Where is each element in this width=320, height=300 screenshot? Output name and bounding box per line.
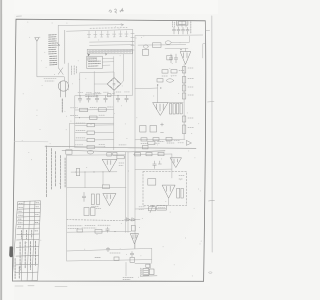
resistor R22 <box>180 103 182 114</box>
note line 2 <box>51 149 53 191</box>
breaker S4 <box>106 31 109 37</box>
wire color label row 3 <box>49 38 57 40</box>
T1 winding turns <box>144 270 148 274</box>
chain labels <box>188 68 194 128</box>
bridge diodes <box>110 81 118 88</box>
resistor R14 <box>182 77 185 84</box>
FL1 side text <box>173 22 175 28</box>
resistor R7 <box>91 208 96 216</box>
resistor R8 <box>95 230 102 234</box>
connector arrows J3 <box>126 218 135 221</box>
title block col line 2 <box>27 201 30 281</box>
op-amp U6 <box>131 234 139 244</box>
label under relay <box>86 94 102 97</box>
resistor R2 <box>76 168 79 175</box>
breaker S7 <box>125 31 128 37</box>
resistor R34 <box>114 257 119 261</box>
transformer base line <box>140 275 157 277</box>
scanner left edge shadow <box>0 0 2 300</box>
mid rail wire <box>67 186 126 189</box>
paper edge smudge <box>209 272 213 274</box>
resistor R9 <box>162 70 168 73</box>
inline switch mark <box>57 43 60 46</box>
resistor R19 <box>170 104 172 115</box>
pot row label <box>139 207 145 210</box>
resistor R28 <box>158 152 164 155</box>
wire lower <box>165 47 188 50</box>
wire net A <box>45 146 196 148</box>
small box left <box>167 55 172 60</box>
plug strain relief X <box>58 68 63 75</box>
resistor R6 <box>84 208 89 216</box>
net labels <box>75 144 126 146</box>
scanned page background <box>0 0 218 300</box>
filter label column <box>190 22 192 34</box>
border frame of drawing sheet <box>12 19 205 281</box>
lower rail wire 1 <box>67 248 152 251</box>
box top wire <box>67 154 126 156</box>
wire to bridge top <box>80 72 114 96</box>
note line 1 <box>45 146 47 197</box>
vertical link 1 <box>84 172 86 188</box>
resistor R15 <box>182 85 185 91</box>
cord label vertical text <box>72 66 77 75</box>
DC rail wire <box>75 94 132 97</box>
ladder outer left wire <box>69 123 113 148</box>
node j <box>180 49 181 50</box>
filter cap C1 <box>108 93 115 97</box>
breaker S5 <box>113 31 116 37</box>
contact K1b <box>87 131 95 134</box>
wire leader to plug <box>57 25 59 68</box>
resistor R32 <box>130 258 135 263</box>
box on net B end <box>143 145 149 149</box>
wire J3 <box>125 218 141 220</box>
wire color label row 10 <box>49 53 57 55</box>
node e <box>102 171 103 172</box>
transformer T1 winding 1 <box>143 269 149 276</box>
component on net B <box>107 152 117 156</box>
resistor R33 <box>146 264 150 267</box>
breaker S6 <box>119 31 122 37</box>
wire color label list <box>49 34 57 36</box>
contact K2b <box>98 108 106 111</box>
rail label <box>95 256 101 258</box>
wire gauge label row 4 <box>50 61 57 63</box>
handwritten note 45A top <box>109 9 123 14</box>
cap C5 <box>104 96 108 103</box>
wire bridge bottom <box>113 90 115 95</box>
crease line <box>15 140 49 143</box>
secondary rail wire <box>138 44 186 46</box>
wire VR1 in <box>185 49 187 52</box>
cap C4 <box>95 96 99 103</box>
node d <box>84 171 85 172</box>
box left wire <box>66 155 68 261</box>
contact row 2 <box>75 116 114 119</box>
wire gauge label row 1 <box>50 55 57 57</box>
capacitor C21 <box>158 161 161 164</box>
wire color label row 4 <box>49 40 57 42</box>
resistor R35 row <box>148 141 155 144</box>
op-amp U5 <box>162 185 175 198</box>
arrow mark <box>187 141 192 146</box>
J2 label text <box>158 207 165 209</box>
paper mottling overlay <box>10 14 210 286</box>
cap C7 <box>125 95 129 102</box>
lower rail wire 2 <box>67 260 152 261</box>
U1 side label <box>119 163 124 166</box>
bridge rectifier CR1 <box>107 78 121 91</box>
terminal strip pins <box>90 50 131 53</box>
relay K1 inner cell <box>88 58 97 61</box>
breaker S2 <box>94 31 97 37</box>
capacitor C17 <box>174 54 178 63</box>
op-amp U1 <box>102 159 117 172</box>
strip end mark <box>105 53 107 56</box>
connector wedge mark <box>88 54 90 57</box>
resistor R17 <box>182 116 185 122</box>
resistor bank bus <box>168 102 183 104</box>
resistor R30 <box>181 188 183 198</box>
row wire to comparator <box>67 230 131 233</box>
wire net B <box>62 150 165 152</box>
wire relay to bridge <box>93 72 95 96</box>
node f <box>114 231 115 232</box>
wire F2 to node <box>172 36 190 42</box>
scan speckle <box>22 22 201 277</box>
zone tick lower-right on border <box>209 199 215 202</box>
smudge top-left <box>17 15 22 17</box>
node h <box>160 87 161 88</box>
wire color label row 2 <box>49 36 57 38</box>
caps row labels <box>78 91 130 94</box>
row 2 labels <box>71 114 106 116</box>
wire right drop <box>151 248 153 263</box>
line filter FL1 <box>176 21 188 26</box>
R35 label <box>158 140 181 143</box>
title block vertical text lower <box>20 241 35 270</box>
paper mottling gradient <box>0 0 1 1</box>
wire color label row 7 <box>49 46 57 48</box>
zone tick top-right on border <box>206 29 210 31</box>
divider chain wire <box>183 64 185 139</box>
AC line label <box>44 79 56 81</box>
left bottom wire <box>125 262 127 276</box>
plug prongs <box>61 82 66 97</box>
wire gauge label row 2 <box>50 57 57 59</box>
leader line to note <box>58 24 123 26</box>
node d2 <box>93 171 94 172</box>
title block vertical text bottom <box>15 259 19 279</box>
vertical link 2 <box>102 172 104 185</box>
wire color label row 9 <box>49 50 57 52</box>
note line 3 <box>55 152 57 187</box>
ink blot <box>9 246 13 257</box>
resistor R25 <box>166 137 172 140</box>
resistor R36 <box>77 229 83 232</box>
regulator VR1 <box>180 52 191 65</box>
capacitor C14 <box>186 27 189 34</box>
panel right bus wire <box>131 30 134 96</box>
FL1 inner body <box>178 22 185 25</box>
note line 5 <box>64 158 66 188</box>
resistor R12 <box>157 79 163 82</box>
title block col line 3 <box>32 201 35 281</box>
top margin tint <box>0 0 218 14</box>
contact row 6 <box>75 146 105 148</box>
resistor R21 <box>177 103 179 114</box>
wire into shield box <box>171 154 173 178</box>
resistor R18 <box>182 125 185 134</box>
transformer T1 winding 2 <box>149 269 154 275</box>
title block col line 1 <box>21 201 24 280</box>
capacitor C22 <box>130 252 134 257</box>
resistor labels <box>162 71 184 77</box>
capacitor C16 <box>169 54 173 63</box>
contact row 5 <box>75 139 114 141</box>
row 5 label <box>76 137 85 139</box>
transducer box <box>148 179 156 185</box>
right block top wire <box>135 34 203 37</box>
motor label vertical text <box>61 99 63 112</box>
resistor R24 <box>153 138 159 141</box>
capacitor C11 <box>172 27 175 34</box>
resistor R31 <box>131 226 135 232</box>
wire gauge label row 3 <box>50 59 57 61</box>
node c <box>117 95 118 96</box>
resistor R10 <box>171 70 177 73</box>
contact K2c <box>90 116 98 119</box>
supply rail V- <box>127 152 129 232</box>
title block vertical text mid <box>21 230 31 239</box>
op-amp U4 <box>170 158 181 168</box>
capacitor C13 <box>181 27 184 34</box>
zone tick mid-right on border <box>208 101 215 104</box>
resistor R1 <box>117 156 124 159</box>
capacitor C20 <box>153 161 157 169</box>
wire gauge label row 5 <box>50 64 57 66</box>
fuse F1 <box>143 45 148 48</box>
cap C3 <box>87 96 91 103</box>
title block row lines <box>15 204 40 273</box>
switch box S8 <box>143 49 149 55</box>
small label <box>110 252 120 254</box>
bus line 1 <box>90 41 134 44</box>
breaker row labels <box>90 27 127 30</box>
title block small row marks <box>18 203 39 231</box>
wire U5 out <box>168 198 170 206</box>
breaker S1 <box>87 31 90 37</box>
contact K1c <box>87 138 95 141</box>
sense row wire <box>133 153 172 156</box>
lower rail <box>135 138 185 141</box>
wire from panel to plug <box>64 30 66 63</box>
resistor R16 <box>182 93 185 99</box>
cap C6 <box>116 95 120 102</box>
power cord wire <box>67 63 69 90</box>
switch S9 <box>153 43 162 48</box>
resistor R3 <box>102 185 109 188</box>
capacitor C8 <box>82 192 86 201</box>
relay text <box>88 59 100 66</box>
wire U6 out <box>134 244 136 249</box>
shielded dashed box <box>143 172 187 206</box>
shield box marks <box>179 176 184 180</box>
chassis dashed line <box>67 219 135 222</box>
node g <box>157 84 158 85</box>
contact K2a <box>80 108 88 111</box>
resistor R23 <box>141 138 147 141</box>
title block outline <box>12 201 40 281</box>
right border inner jog wire <box>203 21 206 58</box>
ground symbol <box>35 38 39 42</box>
capacitor C9 <box>106 227 110 232</box>
paper right edge shadow <box>211 16 214 252</box>
bus line 2 <box>90 44 134 47</box>
pcb label row <box>68 225 110 228</box>
note line 4 <box>60 156 62 190</box>
capacitor C10 <box>106 247 110 252</box>
bus tick marks <box>131 34 134 51</box>
fuse F2 <box>165 41 171 45</box>
wire bridge left <box>94 83 107 85</box>
resistor R20 <box>173 104 175 115</box>
right block left rail <box>134 36 136 249</box>
wire color label row 5 <box>49 42 57 44</box>
cap polarity <box>161 123 164 133</box>
node a <box>79 95 80 96</box>
row 1 labels <box>71 106 113 109</box>
node b <box>96 95 97 96</box>
left margin tint <box>3 0 14 300</box>
bottom label <box>123 278 133 280</box>
VR2 wiper arrow <box>150 205 153 213</box>
wire to op-amp A <box>157 85 159 103</box>
row 3 label <box>76 122 85 124</box>
potentiometer VR2 <box>149 207 156 211</box>
contact row 3 <box>75 124 114 126</box>
resistor R27 <box>146 153 152 156</box>
wire color label row 6 <box>49 44 57 46</box>
pot row wire <box>135 207 166 210</box>
connector box J2 <box>157 206 167 211</box>
resistor R26 <box>135 153 141 156</box>
capacitor C19 <box>150 126 157 133</box>
capacitor C12 <box>177 27 180 34</box>
contact K1a <box>87 124 95 127</box>
terminal box on net B <box>66 150 72 154</box>
wire color label row 8 <box>49 48 57 50</box>
fuse F3 <box>167 79 174 82</box>
bottom outside dashes <box>15 285 67 288</box>
wire bridge right to strip <box>121 54 124 84</box>
op-amp U2 <box>103 194 116 206</box>
wire relay contacts right <box>102 58 114 65</box>
ground wire <box>37 41 64 81</box>
op-amp U3 <box>153 103 168 116</box>
ladder inner left wire <box>74 96 76 148</box>
resistor R4 <box>91 194 94 205</box>
relay K1 label box <box>87 56 103 68</box>
resistor R13 <box>182 67 185 74</box>
row labels <box>141 142 184 145</box>
contact row 1 <box>75 109 114 112</box>
wire mid rail <box>135 168 172 171</box>
contact K1d <box>87 146 95 149</box>
wire to comparator node <box>135 87 158 90</box>
resistor R29 <box>177 188 180 198</box>
wire U1 out <box>71 171 117 173</box>
scanner edge dark line <box>1 0 2 300</box>
panel top wire <box>66 30 132 32</box>
transformer left marks <box>141 268 142 276</box>
terminal strip TB1 <box>87 49 132 53</box>
fuse F4 on net B <box>87 150 93 154</box>
AC plug body <box>58 81 68 91</box>
resistor R5 <box>97 194 100 205</box>
cap C2 <box>78 96 82 103</box>
capacitor C18 <box>140 126 146 133</box>
breaker S3 <box>100 31 103 37</box>
node r2 <box>79 117 80 118</box>
node d3 <box>75 172 76 173</box>
row 4 label <box>76 130 85 132</box>
feed wires from border <box>178 21 186 27</box>
U2 side label <box>92 207 102 209</box>
wire bottom link <box>135 263 150 268</box>
supply rail V+ <box>125 152 127 232</box>
ladder right bus <box>113 57 115 150</box>
contact row 4 <box>75 131 114 133</box>
